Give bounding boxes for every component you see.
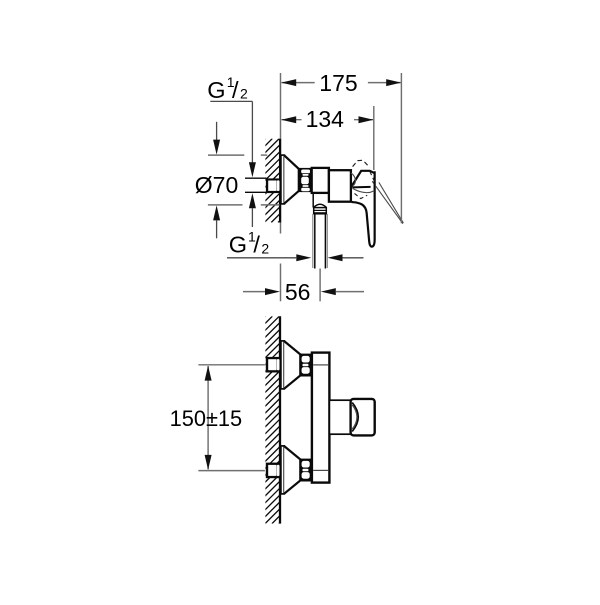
shower hose outlet pipe (side view) bbox=[315, 214, 326, 269]
mixer body section B / cartridge housing (side view) bbox=[329, 170, 351, 202]
escutcheon top (front view) bbox=[281, 341, 284, 389]
handle neck (front view) bbox=[329, 400, 350, 434]
escutcheon flange (side view) bbox=[281, 155, 284, 204]
cartridge dome (side view) bbox=[352, 171, 375, 187]
svg-text:2: 2 bbox=[261, 241, 269, 257]
handle end cap arc bbox=[352, 403, 358, 432]
leader G1/2 outlet with arrows bbox=[227, 257, 296, 259]
connecting nut (side view) bbox=[299, 168, 312, 192]
svg-text:G: G bbox=[229, 232, 247, 258]
extension line 175 (lever tip) bbox=[400, 73, 402, 223]
union square bottom (front view) bbox=[266, 463, 279, 479]
handle knob (front view) bbox=[351, 399, 375, 436]
dimension 134 bbox=[282, 119, 373, 121]
connecting nut top (front view) bbox=[300, 354, 312, 377]
svg-text:G: G bbox=[207, 77, 225, 103]
hidden handle knob, raised position (dashed) bbox=[353, 160, 370, 167]
inlet pipe stub (side view) bbox=[245, 178, 267, 192]
svg-text:/: / bbox=[253, 232, 260, 258]
wall hatch (front view, bottom) bbox=[51, 316, 493, 523]
dimension 56 bbox=[243, 291, 265, 293]
wall face line (front view) bbox=[279, 316, 281, 523]
mixer body plate (front view) bbox=[312, 353, 330, 483]
svg-text:134: 134 bbox=[306, 106, 345, 132]
svg-text:2: 2 bbox=[240, 85, 248, 101]
wall face extension below wall (top view) bbox=[280, 223, 282, 234]
escutcheon cone (side view) bbox=[284, 155, 299, 203]
dimension 175 bbox=[282, 82, 401, 84]
union square (side view) bbox=[266, 178, 279, 193]
escutcheon bottom (front view) bbox=[281, 446, 284, 494]
svg-text:Ø70: Ø70 bbox=[195, 172, 238, 198]
lower arrow of inlet thread callout bbox=[249, 193, 256, 208]
union square top (front view) bbox=[266, 357, 279, 373]
dimension 150±15 bbox=[198, 365, 265, 471]
svg-text:56: 56 bbox=[285, 279, 311, 305]
mixer body section A (side view) bbox=[312, 168, 329, 193]
dome thin silhouette lines bbox=[351, 173, 375, 193]
extension line at wall face (top) bbox=[280, 73, 282, 139]
extension line 134 (dome front) bbox=[373, 106, 375, 170]
dimension Ø70 arrows bbox=[216, 122, 218, 140]
outlet elbow below body (side view) bbox=[313, 193, 326, 214]
dimension Ø70 extension lines bbox=[208, 155, 280, 205]
svg-text:/: / bbox=[232, 77, 239, 103]
wall face line (top view) bbox=[279, 139, 281, 223]
connecting nut bottom (front view) bbox=[300, 459, 312, 482]
leader G1/2 to inlet thread bbox=[251, 101, 253, 163]
lever handle, closed position (side view) bbox=[352, 171, 375, 246]
svg-text:150±15: 150±15 bbox=[170, 406, 243, 431]
wall hatch (side view, top) bbox=[175, 139, 369, 223]
svg-text:175: 175 bbox=[319, 70, 357, 96]
lever raised position (thin outline) bbox=[376, 182, 403, 223]
outlet centre extension line bbox=[319, 269, 321, 302]
